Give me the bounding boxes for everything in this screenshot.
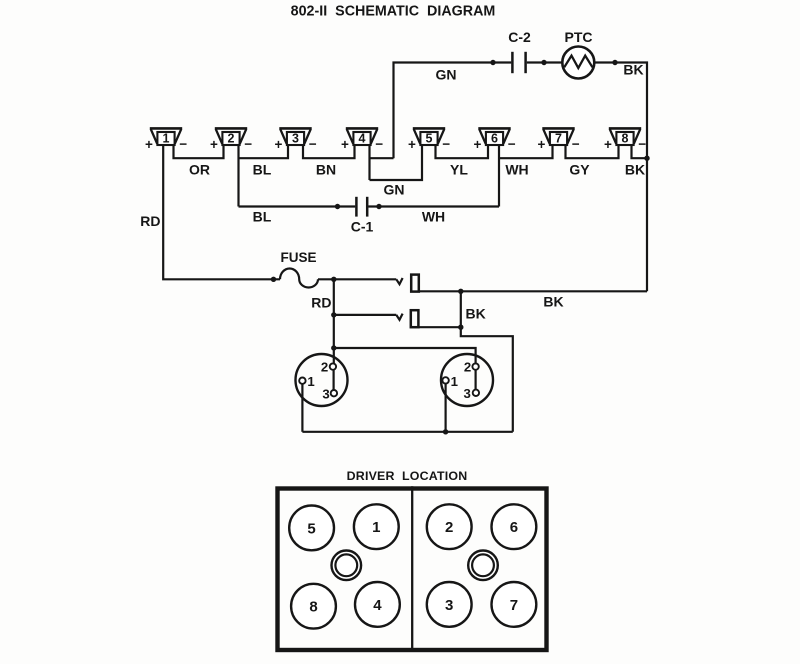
svg-text:3: 3 <box>445 597 453 614</box>
jack J2 sleeve <box>411 310 419 327</box>
wire: driver 3 minus to driver 4 plus (BN) <box>303 145 355 158</box>
svg-text:2: 2 <box>464 359 471 374</box>
svg-text:DRIVER LOCATION: DRIVER LOCATION <box>347 469 468 483</box>
driver location circle 4 <box>355 582 400 627</box>
driver 2 (speaker symbol) <box>215 128 247 145</box>
junction dot before fuse <box>271 277 276 282</box>
svg-text:1: 1 <box>372 519 380 536</box>
svg-text:−: − <box>375 137 383 152</box>
wire: left XLR pin 2 to pin 3 jumper <box>333 370 335 391</box>
wire: GN riser from driver4/5 node up and right to C-2 <box>394 63 512 159</box>
svg-text:−: − <box>508 137 516 152</box>
junction dot at jack 2 sleeve junction <box>458 325 463 330</box>
jack J1 sleeve <box>411 275 419 292</box>
svg-text:OR: OR <box>189 161 210 177</box>
wire BK: jack J1 sleeve to BK vertical from PTC <box>419 290 647 292</box>
svg-text:C-1: C-1 <box>351 219 374 235</box>
junction dot at jack 2 tip wire <box>331 312 336 317</box>
left XLR pin 1 <box>299 378 305 384</box>
svg-text:−: − <box>638 137 646 152</box>
driver location enclosure box <box>278 489 547 651</box>
driver 6 (speaker symbol) <box>478 128 510 145</box>
svg-text:WH: WH <box>422 208 445 224</box>
wire: driver 4 minus to GN riser (short link) <box>370 157 394 159</box>
svg-text:5: 5 <box>307 520 315 537</box>
svg-text:BL: BL <box>253 161 272 177</box>
driver location circle 6 <box>492 504 537 549</box>
junction dot RD at left XLR riser <box>331 345 336 350</box>
svg-text:BN: BN <box>316 161 336 177</box>
right XLR pin 3 <box>473 390 479 396</box>
svg-text:−: − <box>442 137 450 152</box>
XLR connector left (circle) <box>296 354 348 406</box>
driver location circle 2 <box>427 504 472 549</box>
fuse F1 (S-curve symbol) <box>280 269 318 288</box>
svg-text:4: 4 <box>373 597 382 614</box>
wire: jack J2 sleeve to BK vertical <box>418 326 460 328</box>
junction dot driver 8 minus / BK vertical <box>644 156 649 161</box>
svg-text:+: + <box>474 137 482 152</box>
wire: bottom bus joining pin 1 of both XLRs and BK drop <box>302 431 512 433</box>
driver 4 (speaker symbol) <box>346 128 378 145</box>
svg-text:WH: WH <box>505 161 528 177</box>
wire: driver 4 minus stub down to GN jumper <box>368 145 370 180</box>
svg-text:C-2: C-2 <box>508 29 531 45</box>
svg-text:BK: BK <box>466 305 486 321</box>
driver 5 (speaker symbol) <box>413 128 445 145</box>
XLR connector right (circle) <box>441 354 493 406</box>
wire: driver 5 minus to driver 6 plus (YL) <box>436 145 489 158</box>
wire RD: driver 1 plus stub down to fuse wire <box>163 145 280 279</box>
svg-text:FUSE: FUSE <box>280 250 316 265</box>
driver location circle 8 <box>291 584 336 629</box>
svg-text:BK: BK <box>543 294 563 310</box>
svg-text:+: + <box>275 137 283 152</box>
driver location circle 7 <box>492 582 537 627</box>
wire BK: down from sleeve junction, over and down to XLR pin1 bus <box>461 291 513 432</box>
svg-text:3: 3 <box>292 132 299 146</box>
svg-text:+: + <box>210 137 218 152</box>
junction dot after fuse (RD node) <box>331 277 336 282</box>
wire: driver 2 minus stub down through bus to C-1 level <box>237 145 239 207</box>
svg-text:+: + <box>145 137 153 152</box>
port (left, double ring) <box>332 551 362 581</box>
driver 1 (speaker symbol) <box>150 128 182 145</box>
svg-text:−: − <box>244 137 252 152</box>
junction dot right XLR pin 1 at bottom bus <box>443 429 448 434</box>
driver location circle 5 <box>289 506 334 551</box>
svg-text:YL: YL <box>450 161 468 177</box>
svg-text:GN: GN <box>436 66 457 82</box>
left XLR pin 2 <box>330 363 336 369</box>
svg-text:7: 7 <box>510 597 518 614</box>
svg-text:3: 3 <box>322 386 329 401</box>
wire RD: junction to right XLR pin 2 riser <box>334 348 476 363</box>
svg-text:BK: BK <box>623 62 643 78</box>
wire: RD node to jack 2 tip <box>334 314 397 316</box>
wire: left XLR pin 1 down to bottom bus <box>301 384 303 432</box>
enclosure center divider <box>411 486 413 650</box>
junction dot on jack sleeve wire <box>458 289 463 294</box>
port (right, double ring) <box>468 551 498 581</box>
svg-text:+: + <box>538 137 546 152</box>
right XLR pin 2 <box>472 363 478 369</box>
svg-text:GN: GN <box>384 181 405 197</box>
right XLR pin 1 <box>442 377 448 383</box>
svg-text:PTC: PTC <box>565 29 593 45</box>
junction dot on GN wire <box>490 60 495 65</box>
svg-text:2: 2 <box>321 359 328 374</box>
wire: RD vertical from fuse node down to XLR pin 2 (left) <box>333 279 335 363</box>
svg-text:+: + <box>604 137 612 152</box>
driver location circle 1 <box>354 504 399 549</box>
svg-text:5: 5 <box>426 132 433 146</box>
svg-text:1: 1 <box>163 132 170 146</box>
svg-text:6: 6 <box>491 132 498 146</box>
wire: driver 6 minus stub down through bus to C-1 level <box>498 145 500 207</box>
svg-text:−: − <box>572 137 580 152</box>
wire BL: driver 2 minus node to C-1 left plate <box>239 205 356 207</box>
svg-text:RD: RD <box>311 295 331 311</box>
wire: C-2 to PTC <box>527 61 563 63</box>
capacitor C-2 <box>512 52 525 73</box>
driver 3 (speaker symbol) <box>279 128 311 145</box>
wire: bus driver 6 minus to driver 7 plus (WH) <box>499 145 553 158</box>
svg-text:1: 1 <box>451 374 458 389</box>
svg-text:2: 2 <box>228 132 235 146</box>
svg-text:7: 7 <box>555 132 562 146</box>
driver 7 (speaker symbol) <box>542 128 574 145</box>
thermistor PTC (circle with zigzag) <box>562 47 594 79</box>
svg-text:1: 1 <box>307 374 314 389</box>
wire: driver 8 minus to BK vertical <box>632 145 648 158</box>
svg-text:4: 4 <box>359 132 366 146</box>
svg-text:6: 6 <box>510 519 518 536</box>
jack J1 tip contact <box>396 278 402 284</box>
svg-text:802-II SCHEMATIC DIAGRAM: 802-II SCHEMATIC DIAGRAM <box>291 3 496 19</box>
junction dot between C-2 and PTC <box>541 60 546 65</box>
wire GN: driver 4 minus to driver 5 plus (lower jumper) <box>370 145 423 180</box>
wire WH: C-1 right plate to driver 6 minus node <box>368 205 499 207</box>
left XLR pin 3 <box>331 390 337 396</box>
svg-text:BK: BK <box>625 161 645 177</box>
svg-text:+: + <box>408 137 416 152</box>
wire: right XLR pin 2 to pin 3 jumper <box>475 370 477 391</box>
capacitor C-1 <box>356 197 367 217</box>
wire: fuse to jack 1 tip, junction at RD vertical <box>318 278 396 280</box>
svg-text:3: 3 <box>464 386 471 401</box>
driver 8 (speaker symbol) <box>609 128 641 145</box>
junction dot left of C-1 <box>335 204 340 209</box>
junction dot right of C-1 <box>376 204 381 209</box>
svg-text:+: + <box>341 137 349 152</box>
driver location circle 3 <box>427 582 472 627</box>
svg-text:RD: RD <box>140 213 160 229</box>
wire: PTC right to BK vertical, down to jack sleeve wire <box>594 63 647 292</box>
jack J2 tip contact <box>396 314 402 320</box>
svg-text:8: 8 <box>622 132 629 146</box>
svg-text:−: − <box>179 137 187 152</box>
wire: driver 7 minus to driver 8 plus (GY) <box>566 145 619 158</box>
svg-text:8: 8 <box>309 599 317 616</box>
wire: driver 1 minus to driver 2 plus (OR) <box>174 145 224 158</box>
svg-text:−: − <box>309 137 317 152</box>
svg-text:2: 2 <box>445 519 453 536</box>
junction dot right of PTC <box>612 60 617 65</box>
wire: bus driver 2 minus to driver 3 plus (BL) <box>239 145 289 158</box>
wire: right XLR pin 1 down to bottom bus <box>445 384 447 432</box>
svg-text:GY: GY <box>569 161 590 177</box>
svg-text:BL: BL <box>253 209 272 225</box>
